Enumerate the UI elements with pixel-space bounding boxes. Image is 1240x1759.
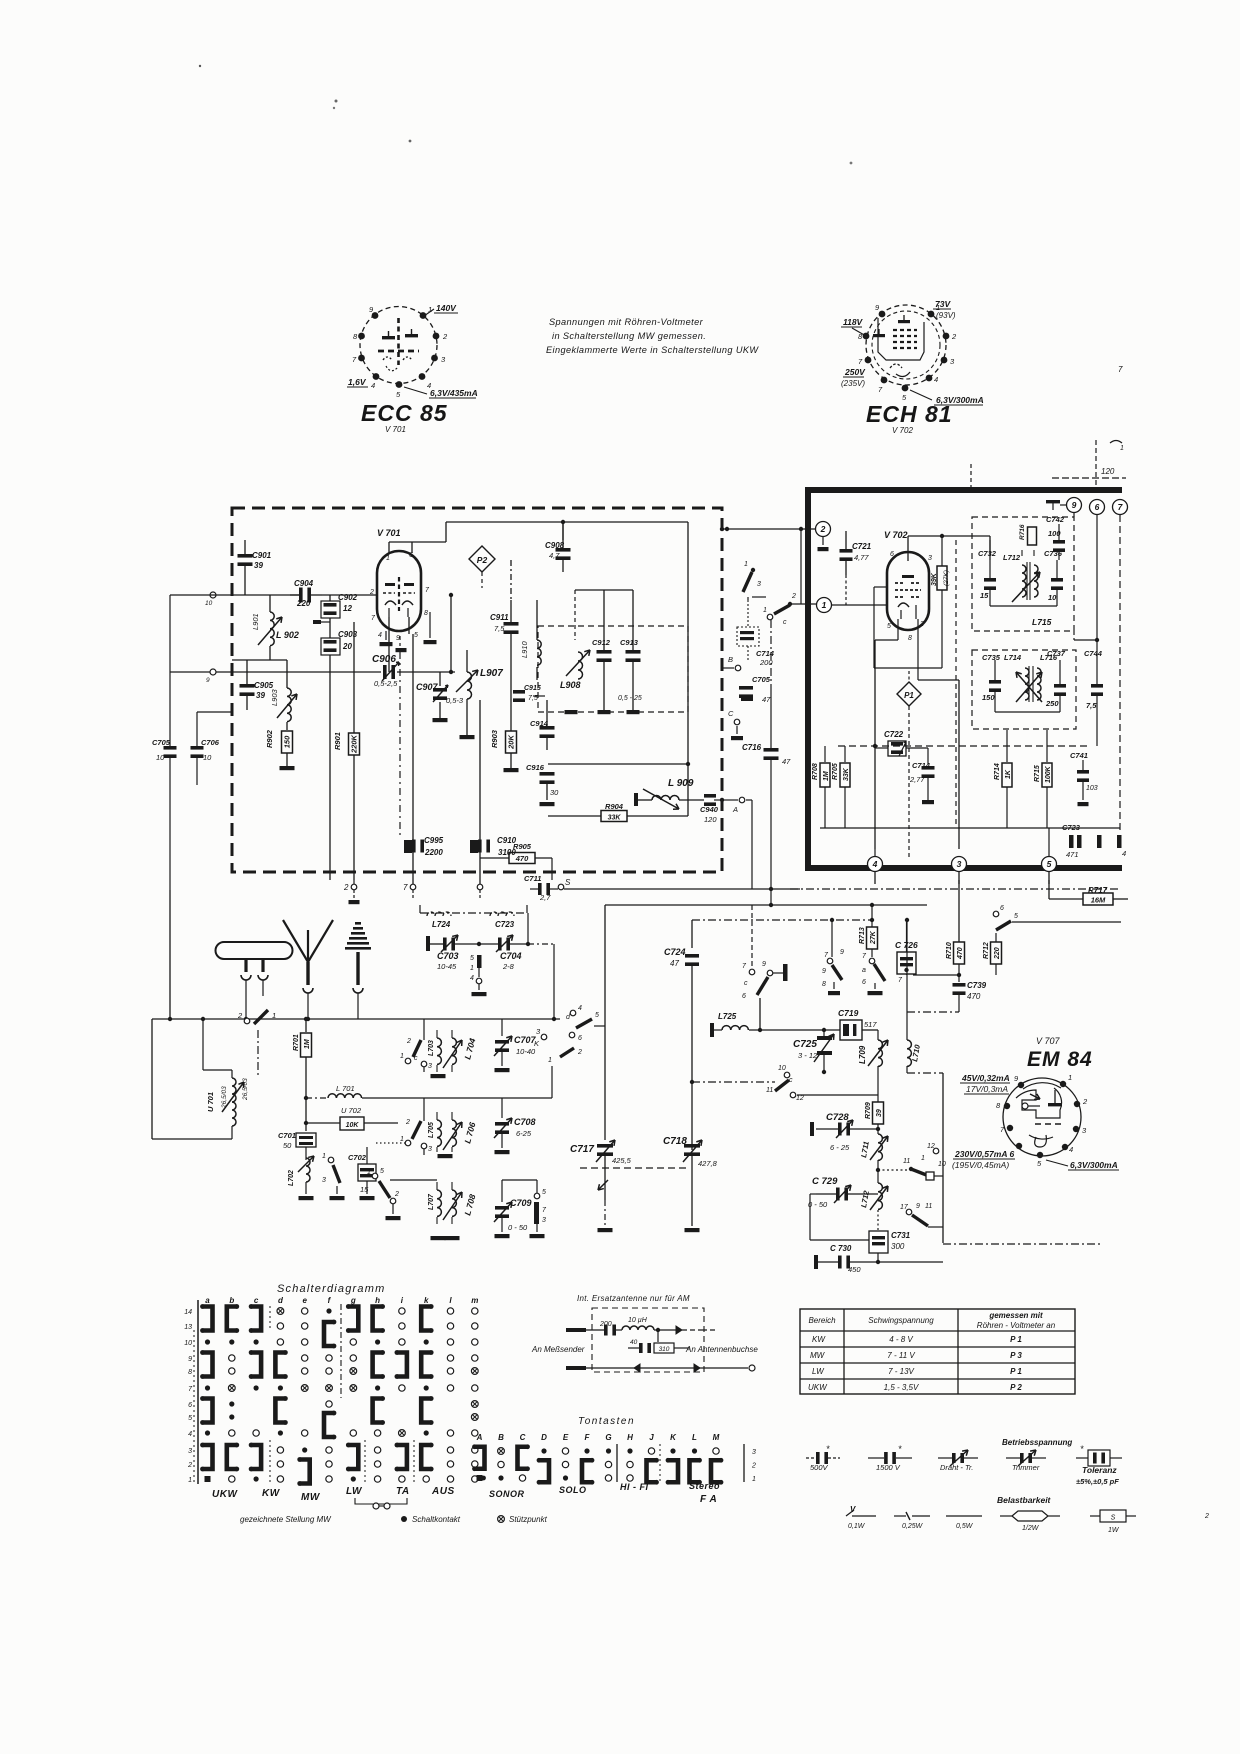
switch column right [534,1193,540,1199]
resistor R904 33K [601,811,627,822]
svg-text:(93V): (93V) [936,311,956,320]
svg-text:R904: R904 [605,802,624,811]
svg-text:5: 5 [470,955,474,962]
svg-text:2: 2 [442,332,448,341]
ground [731,736,743,740]
svg-text:7: 7 [1118,365,1123,374]
svg-text:47: 47 [762,695,771,704]
capacitor C744 7,5 [1096,660,1098,684]
trimmer C703 10-45 [430,943,443,945]
svg-text:220K: 220K [350,734,359,754]
capacitor C706 10 [191,746,204,750]
svg-text:m: m [471,1296,478,1305]
capacitor C909 C915 pair [513,690,525,694]
svg-text:C703: C703 [437,951,459,961]
speck [199,65,201,67]
tube V702 [887,552,929,630]
svg-text:P1: P1 [904,691,914,700]
svg-text:V 701: V 701 [377,528,401,538]
svg-text:2: 2 [343,883,349,892]
svg-text:L 909: L 909 [668,778,694,789]
svg-text:J: J [649,1433,654,1442]
svg-text:2: 2 [820,524,826,534]
svg-text:a: a [862,967,866,974]
svg-text:2,7: 2,7 [539,893,551,902]
svg-text:220: 220 [994,947,1001,960]
lower IF dashed box [972,650,1076,729]
svg-text:C723: C723 [495,920,515,929]
legend trimmer [1006,1457,1020,1459]
switch contact 7 a 6 [869,958,875,964]
wire bus 905 [605,904,927,906]
ground [330,1196,345,1200]
svg-text:4: 4 [934,375,938,384]
legend capacitor 1500V [868,1457,884,1459]
svg-text:1: 1 [400,1136,404,1143]
svg-text:*: * [826,1444,830,1454]
matrix cells rows 9-8 [203,1353,213,1377]
svg-text:KW: KW [262,1488,281,1499]
svg-text:15: 15 [980,591,989,600]
wire dashed mid box [838,745,1090,747]
svg-text:C916: C916 [526,763,545,772]
svg-text:1500 V: 1500 V [876,1463,901,1472]
capacitor C720 2,77 [927,748,929,764]
tube socket diagram ECC 85 V701 [360,307,437,384]
wire bus 922 [692,919,872,921]
matrix cells row 4 [205,1430,210,1435]
svg-text:0,5W: 0,5W [956,1523,974,1530]
svg-text:A: A [732,805,738,814]
svg-text:ECH 81: ECH 81 [866,401,953,427]
svg-text:a: a [205,1296,210,1305]
svg-text:26,5/03: 26,5/03 [242,1078,249,1101]
svg-text:C719: C719 [838,1008,859,1018]
svg-text:6: 6 [188,1402,192,1409]
svg-text:6: 6 [742,993,746,1000]
table Bereich [800,1309,1075,1394]
svg-text:1: 1 [752,1476,756,1483]
svg-text:5: 5 [542,1189,546,1196]
svg-text:6: 6 [1095,502,1100,512]
svg-text:P 1: P 1 [1010,1335,1022,1344]
svg-text:4,7: 4,7 [549,551,560,560]
matrix cells row 10 [205,1339,210,1344]
transformer U701 [232,1078,236,1102]
capacitor C908 [562,522,564,548]
svg-text:100: 100 [1048,529,1061,538]
svg-text:C711: C711 [524,874,541,883]
svg-text:C914: C914 [530,719,549,728]
svg-text:±5%,±0,5 pF: ±5%,±0,5 pF [1076,1477,1119,1486]
upper IF dashed box [972,517,1074,631]
svg-text:C911: C911 [490,613,509,622]
svg-text:R709: R709 [865,1102,872,1119]
svg-text:P2: P2 [477,555,488,565]
capacitor C731 300 boxed [869,1231,888,1253]
coil L901 L902 [270,612,274,646]
svg-text:1: 1 [744,561,748,568]
svg-text:Toleranz: Toleranz [1082,1465,1117,1475]
legend capacitor Draht-Tr [938,1457,952,1459]
svg-text:Int. Ersatzantenne nur für: Int. Ersatzantenne nur für AM [577,1294,690,1303]
svg-text:73V: 73V [935,299,951,309]
svg-text:3: 3 [322,1177,326,1184]
wire cathode runs [897,619,899,640]
ground [868,991,883,995]
trimmer C709 0-50 [495,1206,509,1210]
ground [438,1154,453,1158]
svg-text:Schaltkontakt: Schaltkontakt [412,1515,461,1524]
svg-text:3: 3 [428,1146,432,1153]
svg-text:5: 5 [414,632,418,639]
capacitor C729 0-50 [816,1193,836,1195]
svg-text:0 - 50: 0 - 50 [808,1200,828,1209]
svg-text:R903: R903 [490,729,499,748]
capacitor C913 0,5-25 [632,590,634,650]
svg-text:17V/0,3mA: 17V/0,3mA [966,1084,1008,1094]
capacitor C736 10 [1056,560,1058,578]
svg-text:Stützpunkt: Stützpunkt [509,1515,548,1524]
svg-text:1: 1 [763,607,767,614]
svg-text:47: 47 [782,757,791,766]
svg-text:3: 3 [188,1448,192,1455]
svg-text:C901: C901 [252,551,272,560]
switch bank row2 [405,1140,411,1146]
svg-text:G: G [605,1433,611,1442]
terminal 3 [952,857,967,872]
svg-text:4: 4 [188,1431,192,1438]
svg-text:4: 4 [578,1005,582,1012]
legend resistor 1W [1090,1515,1100,1517]
wire dotted to switch [376,1142,406,1144]
earth antenna [355,922,361,925]
svg-text:0,5-2,5: 0,5-2,5 [374,679,398,688]
svg-text:UKW: UKW [212,1489,238,1500]
svg-text:C907: C907 [416,682,439,692]
terminal 4 [874,849,876,856]
LW-TA linkage [355,1498,407,1504]
dash above IF box [970,464,972,489]
capacitor C912 [603,590,605,650]
svg-text:11: 11 [766,1087,773,1094]
svg-text:Schwingspannung: Schwingspannung [868,1316,934,1325]
svg-text:9: 9 [206,677,210,684]
trimmer C704 2-8 [479,943,498,945]
switch contact 5 6 [993,911,999,917]
wire left rail [169,890,171,1019]
svg-text:1: 1 [921,1155,925,1162]
svg-text:10: 10 [156,753,165,762]
svg-text:4: 4 [1069,1145,1073,1154]
variable capacitor C718 427,8 [684,1144,700,1148]
svg-text:6: 6 [1000,905,1004,912]
svg-text:L715: L715 [1032,617,1052,627]
svg-text:C913: C913 [620,638,639,647]
svg-text:L 902: L 902 [276,630,299,640]
wire gang dashed [580,1167,688,1169]
svg-text:C714: C714 [912,761,931,770]
svg-text:1: 1 [548,1057,552,1064]
trimmer C708 6-25 [495,1122,509,1126]
dashed selector box UKW tuner [232,508,722,872]
resistor R714 1K [1006,730,1008,762]
svg-text:39: 39 [254,561,263,570]
svg-text:4: 4 [371,381,375,390]
svg-text:150: 150 [283,735,292,748]
terminal bar [426,936,430,951]
svg-text:10: 10 [203,753,212,762]
svg-text:c: c [744,980,748,987]
svg-text:33K: 33K [608,815,622,822]
svg-text:5: 5 [887,623,891,630]
coil L707 L708 [437,1190,441,1216]
svg-text:50: 50 [283,1141,292,1150]
svg-text:12: 12 [796,1095,804,1102]
svg-text:C723: C723 [1062,823,1081,832]
capacitor C737 250 [1059,660,1061,684]
svg-text:7: 7 [403,883,408,892]
svg-text:39K: 39K [931,572,938,586]
coil L723 [490,912,514,916]
svg-text:3: 3 [428,1063,432,1070]
svg-text:8: 8 [822,981,826,988]
svg-text:2: 2 [406,1038,411,1045]
coil L725 [710,1023,714,1037]
svg-text:10: 10 [205,600,213,607]
svg-text:C915: C915 [524,685,541,692]
bottom pins [353,880,355,884]
antenna box bottom stub [566,1366,586,1370]
svg-text:L901: L901 [251,613,260,630]
svg-text:9: 9 [840,949,844,956]
svg-text:0,5-3: 0,5-3 [446,696,464,705]
svg-text:10: 10 [938,1161,946,1168]
ground [280,766,295,770]
svg-text:C906: C906 [372,654,396,665]
diamond P2 [469,546,495,572]
svg-text:30: 30 [550,788,559,797]
trimmer C728 6-25 [816,1128,838,1130]
legend Toleranz [1076,1457,1088,1459]
svg-text:*: * [1080,1444,1084,1454]
coil L702 [306,1158,310,1182]
wire right drop x688 [687,522,689,816]
svg-text:R901: R901 [333,732,342,750]
svg-text:(195V/0,45mA): (195V/0,45mA) [952,1160,1009,1170]
svg-text:8: 8 [188,1369,192,1376]
svg-text:20K: 20K [507,735,516,750]
svg-text:39: 39 [876,1109,883,1117]
svg-text:470: 470 [957,947,964,960]
svg-text:0,5 - 25: 0,5 - 25 [618,695,642,702]
wire top bus [446,521,688,523]
svg-text:R716: R716 [1019,524,1026,540]
svg-text:5: 5 [1047,859,1052,869]
capacitor C995 2200 [404,840,412,853]
svg-text:8: 8 [424,610,428,617]
coil L724 [427,912,451,916]
svg-text:7 - 13V: 7 - 13V [888,1367,914,1376]
svg-text:C731: C731 [891,1231,911,1240]
svg-text:470: 470 [967,992,981,1001]
wire [232,594,299,596]
svg-text:4: 4 [1122,849,1126,858]
svg-text:45V/0,32mA: 45V/0,32mA [961,1073,1010,1083]
wire antenna bus [152,1018,560,1020]
svg-text:4,77: 4,77 [854,553,869,562]
svg-text:E: E [563,1433,569,1442]
capacitor C730 450 [818,1261,838,1263]
switch cluster 7-9-8 b [831,920,833,957]
variable capacitor C717 425,5 [604,905,606,1140]
svg-text:C722: C722 [884,730,904,739]
svg-text:1: 1 [822,600,827,610]
svg-text:10-40: 10-40 [516,1047,536,1056]
capacitor C911 7,5 [510,600,512,622]
svg-text:5: 5 [1014,913,1018,920]
svg-text:Belastbarkeit: Belastbarkeit [997,1495,1052,1505]
svg-text:300: 300 [891,1242,905,1251]
ground [495,1150,510,1154]
coil L703 L704 [437,1038,441,1064]
svg-text:1: 1 [400,1053,404,1060]
svg-text:5: 5 [188,1415,192,1422]
svg-text:L903: L903 [270,688,279,706]
svg-text:B: B [498,1433,504,1442]
svg-text:UKW: UKW [808,1383,828,1392]
capacitor C910 3100 [470,840,478,853]
svg-text:S: S [565,878,571,887]
svg-text:6,3V/300mA: 6,3V/300mA [1070,1160,1118,1170]
resistor R903 [506,731,517,753]
svg-text:U 702: U 702 [341,1106,362,1115]
svg-text:c: c [783,619,787,626]
svg-text:c: c [414,1055,418,1062]
matrix frame lines [197,1300,199,1484]
svg-text:L714: L714 [1004,653,1022,662]
svg-text:ECC 85: ECC 85 [361,400,448,426]
svg-text:L707: L707 [428,1193,435,1210]
svg-text:Schalterdiagramm: Schalterdiagramm [277,1283,385,1295]
svg-text:5: 5 [380,1168,384,1175]
svg-text:140V: 140V [436,303,457,313]
svg-text:C904: C904 [294,579,314,588]
svg-text:Stereo: Stereo [689,1481,720,1491]
svg-text:1,6V: 1,6V [348,377,367,387]
svg-text:S: S [1111,1515,1116,1522]
svg-text:5: 5 [595,1012,599,1019]
resistor R715 100K [1046,730,1048,762]
capacitor C711 2,7 [530,888,538,890]
coil L709 [878,1040,882,1066]
coil L910 [537,640,541,665]
svg-text:R710: R710 [946,942,953,959]
ground [685,1228,700,1232]
resistor R709 39 [873,1102,884,1124]
svg-text:1: 1 [1120,445,1124,452]
svg-text:(235V): (235V) [841,379,865,388]
svg-text:MW: MW [301,1492,321,1503]
svg-text:250: 250 [1045,699,1059,708]
capacitor C901 39 [244,540,246,556]
svg-text:2: 2 [1082,1097,1088,1106]
antenna box arrow right [675,1329,677,1331]
svg-text:12: 12 [927,1143,935,1150]
svg-text:100K: 100K [1045,765,1052,783]
svg-text:310: 310 [659,1346,670,1353]
trimmer C906 0,5-2,5 [216,671,381,673]
svg-text:7,5: 7,5 [494,624,505,633]
matrix cells rows 3-2 [203,1445,213,1469]
svg-text:2: 2 [951,332,957,341]
capacitor C904 220 [290,594,300,596]
frame antenna U-loop [216,942,293,959]
ground [431,1074,446,1078]
svg-text:26,5/03: 26,5/03 [221,1086,228,1109]
svg-text:R714: R714 [994,763,1001,780]
svg-text:9: 9 [188,1356,192,1363]
svg-text:2: 2 [1204,1513,1209,1520]
svg-text:C724: C724 [664,947,686,957]
resistor R905 470 [509,853,535,864]
svg-text:C705: C705 [152,738,171,747]
svg-text:0 - 50: 0 - 50 [508,1223,528,1232]
capacitor C705 10 [169,735,171,748]
svg-text:C903: C903 [338,630,358,639]
wire [562,522,564,540]
svg-text:H: H [627,1433,633,1442]
svg-text:V 702: V 702 [884,530,908,540]
svg-text:C704: C704 [500,951,522,961]
terminal 6 [1090,500,1105,515]
capacitor C732 15 [989,560,991,578]
svg-text:C739: C739 [967,981,987,990]
svg-text:C718: C718 [663,1136,687,1147]
svg-text:C714: C714 [756,649,775,658]
svg-text:in Schalterstellung MW gemesse: in Schalterstellung MW gemessen. [552,331,706,341]
svg-text:2: 2 [187,1462,192,1469]
svg-text:C735: C735 [982,653,1001,662]
svg-text:C706: C706 [201,738,220,747]
coil L903 [287,688,291,722]
svg-text:517: 517 [864,1020,877,1029]
svg-text:7,5: 7,5 [1086,701,1097,710]
svg-text:470: 470 [515,854,529,863]
wire x801 drop [800,529,802,604]
svg-text:11: 11 [903,1158,910,1165]
svg-text:3: 3 [752,1449,756,1456]
coil L907 [466,650,468,672]
svg-text:Bereich: Bereich [808,1316,836,1325]
svg-text:C908: C908 [545,541,565,550]
svg-text:V 702: V 702 [892,426,913,435]
svg-text:1K: 1K [1005,769,1012,779]
terminal 10 left [210,592,216,598]
svg-text:L703: L703 [428,1040,435,1056]
svg-text:3 - 12: 3 - 12 [798,1051,818,1060]
trimmer C725 3-12 [817,1036,832,1040]
svg-text:c: c [254,1296,259,1305]
svg-text:SOLO: SOLO [559,1485,587,1495]
svg-text:9: 9 [1072,500,1077,510]
svg-text:L724: L724 [432,920,451,929]
matrix cells row 7 [205,1385,210,1390]
dashed IF pot box [538,626,688,712]
resistor R902 150 [282,731,293,753]
svg-text:V 701: V 701 [385,425,406,434]
switch contact 2-1 antenna [244,1018,250,1024]
